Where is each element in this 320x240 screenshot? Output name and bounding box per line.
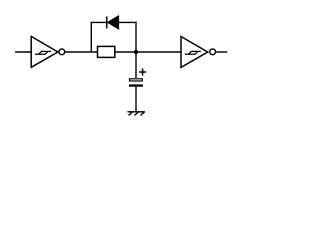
wire [115, 51, 181, 53]
diode D1 [107, 16, 119, 29]
wire [135, 52, 137, 78]
wire input [15, 51, 31, 53]
wire output [216, 51, 228, 53]
ground [127, 112, 144, 116]
wire [135, 22, 137, 52]
resistor R1 [98, 46, 115, 57]
op-amp U1 [31, 36, 64, 67]
wire [90, 22, 92, 52]
wire [135, 87, 137, 112]
wire [91, 21, 137, 23]
wire [65, 51, 98, 53]
capacitor C1 [129, 68, 146, 85]
node junction [134, 50, 138, 54]
op-amp U2 [181, 37, 216, 68]
